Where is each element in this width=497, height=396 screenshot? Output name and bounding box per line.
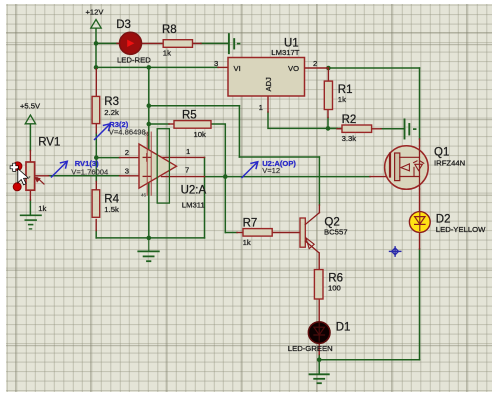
svg-text:IRFZ44N: IRFZ44N: [434, 158, 465, 167]
op-amp minus sign: [143, 175, 150, 177]
resistor R4: [92, 190, 100, 218]
pin opamp in-: [120, 175, 140, 177]
svg-text:LED-GREEN: LED-GREEN: [288, 344, 333, 353]
svg-text:VO: VO: [288, 64, 299, 73]
svg-text:3: 3: [125, 167, 129, 176]
svg-text:1.5k: 1.5k: [104, 205, 119, 214]
Q1 substrate arrow: [409, 166, 414, 168]
pin Q2 emitter to R6: [318, 253, 320, 270]
probe arrow RV1(3): [52, 161, 68, 177]
pin D1 bottom: [318, 344, 320, 355]
wire RV1 bottom to ground: [29, 200, 31, 215]
svg-text:1k: 1k: [163, 49, 171, 58]
svg-text:R2: R2: [342, 114, 357, 126]
probe arrow U2:A(OP): [242, 162, 258, 178]
svg-text:2.2k: 2.2k: [104, 108, 119, 117]
svg-text:D2: D2: [436, 213, 451, 225]
wire pin2 stub: [96, 157, 119, 159]
regulator U1 body: [228, 58, 305, 97]
wire bottom right rail: [319, 359, 419, 361]
wire R5 left: [149, 123, 169, 125]
probe arrow R3(2): [95, 124, 111, 140]
svg-text:2: 2: [313, 59, 317, 68]
node VO/R1: [326, 66, 331, 71]
node R3-R4 divider: [94, 155, 99, 160]
wire R8 right to cell: [201, 42, 229, 44]
svg-text:R7: R7: [243, 218, 258, 230]
Q1 internal vertical line: [419, 146, 421, 189]
pin R4 bottom: [95, 220, 97, 231]
wire R4 bottom corner: [95, 231, 97, 238]
wire opamp out to gate: [205, 176, 371, 178]
resistor R2: [342, 125, 372, 132]
svg-text:1: 1: [259, 103, 263, 112]
pin R7 right to Q2 base: [272, 232, 300, 234]
wire junction to R4 top: [95, 158, 97, 182]
op-amp balance pin line: [150, 132, 152, 195]
cursor mouse arrow: [18, 169, 29, 185]
svg-text:RV1: RV1: [38, 137, 60, 149]
wire vertical net x=148.8: [148, 67, 150, 238]
wire R2 right to cell: [381, 128, 405, 130]
wire +12V stem: [95, 29, 97, 44]
wire Q2 collector drop: [318, 157, 320, 205]
D1 diode symbol: [314, 323, 325, 342]
svg-text:3: 3: [214, 59, 218, 68]
wire R5 right to down column: [211, 124, 225, 233]
marker red dot bottom: [13, 183, 21, 191]
pin U1 ADJ: [267, 96, 269, 112]
svg-text:V=1.76004: V=1.76004: [71, 167, 108, 176]
svg-text:100: 100: [328, 284, 341, 293]
pin U1 VO: [305, 67, 329, 69]
wire +12V column down: [95, 43, 97, 67]
svg-text:Q1: Q1: [434, 146, 449, 158]
ground under D1: [310, 374, 329, 383]
pin R3 bottom: [95, 124, 97, 133]
wire R7 left stub: [225, 232, 237, 234]
wire center ground stub: [148, 238, 150, 251]
RV1 wiper arrow: [37, 178, 44, 185]
pin R2 left: [337, 128, 342, 130]
svg-text:Q2: Q2: [324, 216, 339, 228]
wire down x=239.4: [238, 106, 240, 157]
node ground rail: [147, 236, 152, 241]
node x148/branch: [147, 103, 152, 108]
transistor Q1 body circle: [385, 146, 429, 190]
wire branch y=105.7: [149, 105, 240, 107]
wire RV1 wiper to pin3: [49, 175, 120, 177]
pin Q1 gate: [370, 176, 389, 178]
op-amp U2:A triangle: [139, 144, 177, 188]
battery cell near R8: [229, 34, 240, 53]
svg-text:+12V: +12V: [86, 8, 105, 17]
LED D3 red body: [120, 32, 142, 54]
svg-text:LM317T: LM317T: [271, 48, 300, 57]
node +12V/D3: [94, 41, 99, 46]
svg-text:46: 46: [141, 193, 147, 198]
pin D2 bottom: [419, 233, 421, 250]
pin R4 top: [95, 182, 97, 190]
pin R6 bottom to D1: [318, 299, 320, 322]
svg-text:*: *: [29, 176, 31, 182]
svg-text:ADJ: ADJ: [264, 77, 273, 92]
svg-text:VI: VI: [234, 64, 241, 73]
node +12V/VI rail: [94, 65, 99, 70]
power +5.5V arrow: [25, 115, 35, 124]
svg-text:7: 7: [185, 166, 189, 175]
pin opamp 7 out: [162, 176, 205, 178]
resistor R6: [314, 270, 323, 299]
wire opamp pin1 net down: [204, 157, 206, 238]
resistor R1: [324, 81, 332, 109]
Q1 drain stub: [400, 156, 420, 158]
pin RV1 wiper lead: [35, 175, 49, 177]
pin R3 top: [95, 69, 97, 96]
svg-text:1k: 1k: [38, 204, 46, 213]
wire D1 bottom stub: [318, 355, 320, 360]
LED D1 green body (off/dark): [308, 322, 330, 344]
wire balance loop: [157, 129, 169, 203]
pin R5 left: [169, 123, 174, 125]
marker blue cross: [390, 247, 401, 256]
pin opamp in+: [120, 157, 140, 159]
pin R1 bottom: [327, 110, 329, 118]
wire rail to U1 VI: [96, 66, 218, 68]
resistor R3: [92, 96, 100, 123]
wire +12V junction to D3: [96, 42, 117, 44]
Q1 gate bar: [389, 154, 391, 177]
wire D1 ground stub: [318, 360, 320, 374]
svg-text:R3: R3: [104, 96, 119, 108]
svg-text:R8: R8: [162, 24, 177, 36]
LED D2 yellow body: [409, 212, 430, 233]
svg-text:1k: 1k: [243, 238, 251, 247]
svg-text:V=4.86498: V=4.86498: [109, 127, 146, 136]
Q1 source stub: [400, 176, 420, 178]
resistor R5: [174, 121, 211, 129]
op-amp power pin line 8: [146, 132, 148, 195]
svg-text:R5: R5: [182, 109, 197, 121]
wire ADJ to R2 junction: [328, 127, 342, 129]
resistor R8: [163, 40, 192, 48]
wire drain column top: [419, 68, 421, 139]
pin Q2 collector: [318, 205, 320, 213]
ground under RV1: [21, 215, 41, 229]
D2 diode symbol: [415, 212, 425, 231]
svg-text:R4: R4: [104, 194, 119, 206]
transistor Q2 base bar: [300, 218, 305, 247]
wire R3 bottom to junction: [95, 133, 97, 158]
transistor Q2 emitter arrow: [306, 238, 314, 249]
pin D3 cathode to R8: [142, 42, 164, 44]
op-amp plus sign: [143, 154, 150, 161]
wire ADJ link: [268, 112, 337, 128]
resistor R7: [243, 229, 272, 237]
svg-text:3.3k: 3.3k: [342, 134, 357, 143]
svg-text:LM311: LM311: [182, 200, 205, 209]
pin U1 VI: [218, 66, 228, 68]
svg-text:D3: D3: [116, 19, 131, 31]
pin Q1 source bottom: [419, 189, 421, 212]
wire RV1 top: [29, 125, 31, 151]
wire ground rail bottom: [96, 237, 204, 239]
transistor Q2 collector lead: [305, 213, 319, 225]
cursor white crosshair: [10, 163, 18, 171]
svg-text:LED-YELLOW: LED-YELLOW: [436, 225, 486, 234]
svg-text:+5.5V: +5.5V: [20, 102, 41, 111]
pin RV1 bottom: [29, 190, 31, 200]
svg-text:BC557: BC557: [324, 228, 348, 237]
pin Q1 drain top: [419, 139, 421, 146]
power +12V arrow: [91, 20, 101, 29]
transistor Q2 emitter lead: [305, 241, 319, 253]
node output/R5/R7: [223, 174, 228, 179]
pin D3 anode: [117, 42, 120, 44]
wire R1 bottom link: [327, 118, 329, 129]
Q1 channel bar: [395, 153, 400, 181]
wire VO rail right: [328, 67, 419, 69]
svg-text:10k: 10k: [194, 130, 207, 139]
svg-text:LED-RED: LED-RED: [117, 56, 151, 65]
node x148/R5: [147, 122, 152, 127]
svg-text:2: 2: [125, 148, 129, 157]
Q1 body diode: [414, 161, 424, 176]
potentiometer RV1 body: [26, 162, 35, 190]
node VI/x148: [147, 65, 152, 70]
pin R2 right: [372, 128, 381, 130]
node D1 bottom: [317, 358, 322, 363]
marker red dot top: [13, 162, 22, 171]
node ADJ/R1/R2: [326, 126, 331, 131]
pin RV1 top: [29, 151, 31, 163]
D3 arrow symbol: [127, 40, 134, 47]
pin opamp 1: [161, 156, 205, 158]
svg-text:1k: 1k: [338, 95, 346, 104]
ground center bottom: [138, 251, 159, 261]
wire source column to bottom: [419, 249, 421, 360]
svg-text:D1: D1: [336, 322, 351, 334]
svg-text:U2:A: U2:A: [181, 184, 207, 196]
battery cell near R2: [405, 120, 416, 139]
wire y=157 to Q2 collector column: [239, 156, 319, 158]
pin R8 right: [193, 42, 202, 44]
svg-text:V=12: V=12: [262, 166, 280, 175]
pin R1 top: [327, 68, 329, 81]
svg-text:1: 1: [186, 147, 190, 156]
pin R7 left: [237, 232, 243, 234]
